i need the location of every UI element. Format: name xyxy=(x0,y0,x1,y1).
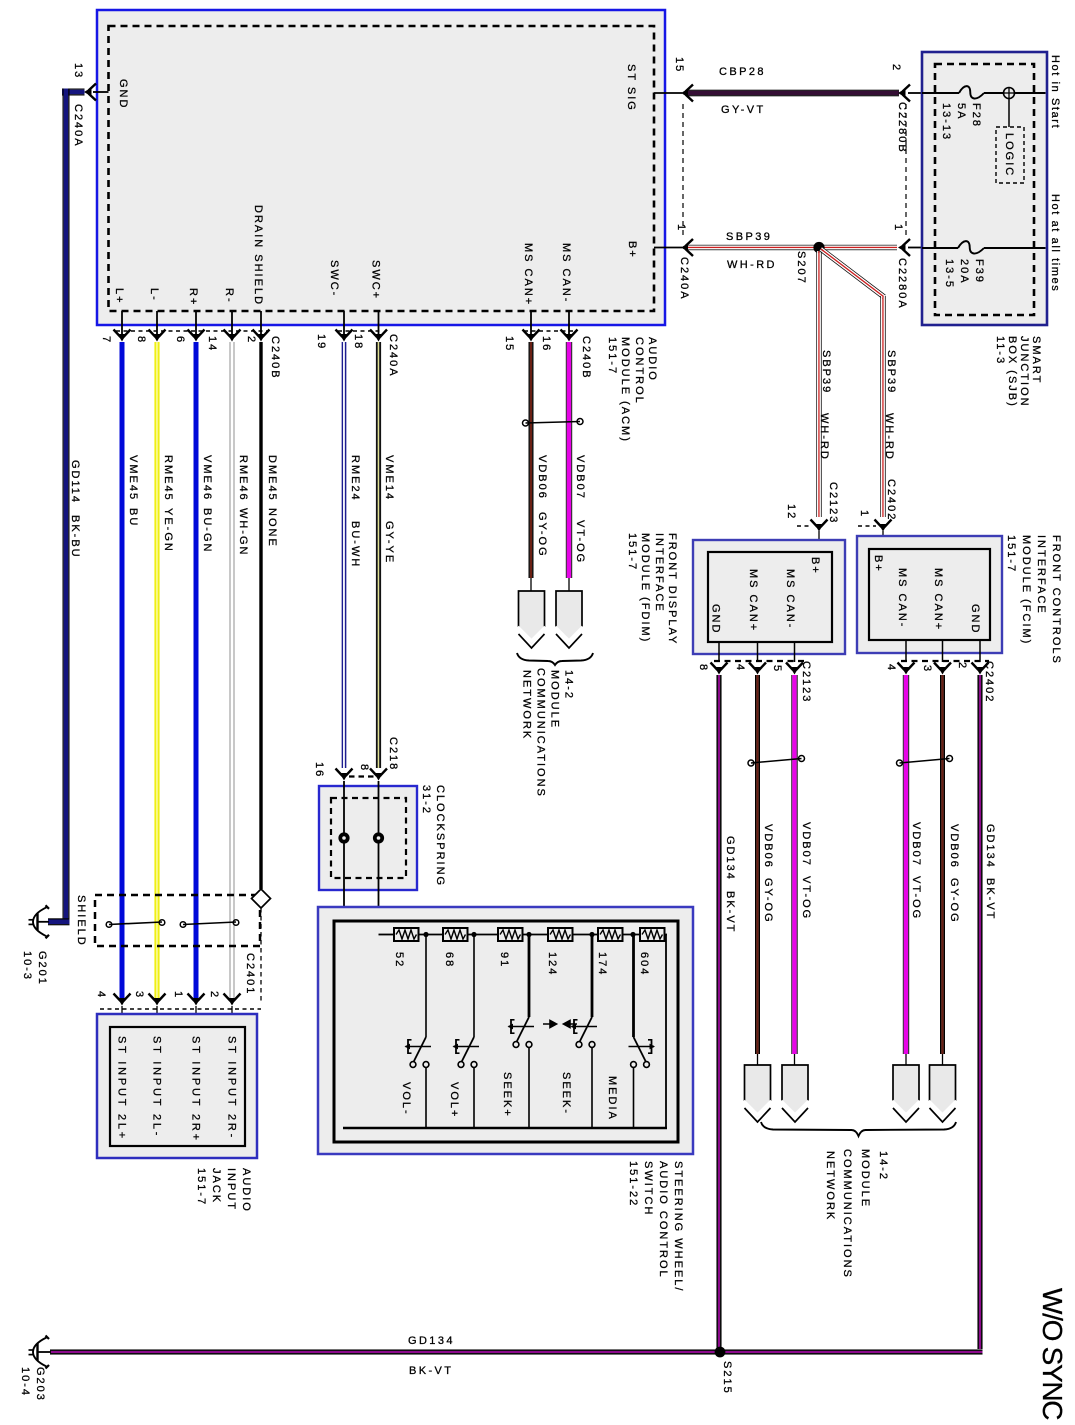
svg-text:4: 4 xyxy=(885,664,897,672)
svg-text:GY-YE: GY-YE xyxy=(383,521,395,564)
svg-text:GY-OG: GY-OG xyxy=(536,512,548,558)
svg-text:LOGIC: LOGIC xyxy=(1003,133,1015,177)
svg-text:VDB07: VDB07 xyxy=(910,822,922,867)
svg-text:ST SIG: ST SIG xyxy=(625,64,637,112)
svg-text:R+: R+ xyxy=(187,288,199,306)
svg-text:G203: G203 xyxy=(34,1367,46,1402)
svg-text:NONE: NONE xyxy=(266,508,278,548)
svg-text:11-3: 11-3 xyxy=(994,336,1006,365)
svg-text:2: 2 xyxy=(956,662,968,670)
svg-text:5: 5 xyxy=(771,665,783,673)
svg-text:13: 13 xyxy=(72,63,84,79)
svg-text:MS CAN+: MS CAN+ xyxy=(747,569,759,632)
svg-text:JUNCTION: JUNCTION xyxy=(1018,336,1030,408)
svg-text:DRAIN SHIELD: DRAIN SHIELD xyxy=(252,205,264,306)
svg-text:151-7: 151-7 xyxy=(1005,535,1017,573)
svg-text:GND: GND xyxy=(969,604,981,634)
svg-text:VME14: VME14 xyxy=(383,455,395,501)
svg-text:4: 4 xyxy=(95,991,107,999)
svg-text:INTERFACE: INTERFACE xyxy=(653,533,665,613)
svg-text:COMMUNICATIONS: COMMUNICATIONS xyxy=(841,1149,853,1279)
svg-text:C2123: C2123 xyxy=(800,661,812,703)
svg-text:F28: F28 xyxy=(970,103,982,128)
svg-text:C218: C218 xyxy=(387,737,399,771)
svg-text:8: 8 xyxy=(358,764,370,772)
svg-text:BU-GN: BU-GN xyxy=(201,508,213,553)
svg-text:C2280B: C2280B xyxy=(896,102,908,154)
svg-text:SEEK-: SEEK- xyxy=(560,1072,572,1115)
svg-text:C2280A: C2280A xyxy=(896,258,908,310)
svg-text:BK-VT: BK-VT xyxy=(724,891,736,933)
svg-text:YE-GN: YE-GN xyxy=(162,508,174,553)
svg-text:B+: B+ xyxy=(809,557,821,575)
svg-text:12: 12 xyxy=(785,504,797,520)
svg-text:7: 7 xyxy=(100,336,112,344)
svg-text:MS CAN+: MS CAN+ xyxy=(522,243,534,306)
svg-text:18: 18 xyxy=(352,334,364,350)
svg-text:AUDIO: AUDIO xyxy=(646,337,658,382)
svg-text:GND: GND xyxy=(117,79,129,109)
svg-text:31-2: 31-2 xyxy=(420,785,432,815)
svg-text:ST INPUT 2L+: ST INPUT 2L+ xyxy=(116,1036,128,1141)
svg-text:W/O SYNC: W/O SYNC xyxy=(1037,1288,1068,1420)
svg-text:MODULE: MODULE xyxy=(549,670,561,729)
svg-text:MS CAN-: MS CAN- xyxy=(896,568,908,628)
svg-text:CONTROL: CONTROL xyxy=(633,337,645,405)
svg-text:MODULE (FDIM): MODULE (FDIM) xyxy=(639,533,651,643)
svg-text:C2402: C2402 xyxy=(885,479,897,521)
svg-text:14: 14 xyxy=(206,336,218,352)
svg-text:20A: 20A xyxy=(958,259,970,285)
svg-text:GD134: GD134 xyxy=(408,1335,455,1347)
svg-text:RME45: RME45 xyxy=(162,455,174,502)
svg-text:151-22: 151-22 xyxy=(627,1161,639,1207)
svg-text:174: 174 xyxy=(596,952,608,976)
svg-text:SMART: SMART xyxy=(1030,336,1042,384)
svg-text:ST INPUT 2R+: ST INPUT 2R+ xyxy=(190,1036,202,1143)
svg-text:FRONT CONTROLS: FRONT CONTROLS xyxy=(1050,535,1062,665)
svg-text:NETWORK: NETWORK xyxy=(521,670,533,740)
svg-text:2: 2 xyxy=(245,336,257,344)
svg-text:FRONT DISPLAY: FRONT DISPLAY xyxy=(666,533,678,645)
svg-text:4: 4 xyxy=(734,664,746,672)
svg-text:Hot at all times: Hot at all times xyxy=(1049,194,1061,292)
svg-text:VOL-: VOL- xyxy=(400,1082,412,1116)
svg-text:SWC+: SWC+ xyxy=(370,260,382,300)
svg-text:GY-OG: GY-OG xyxy=(762,878,774,924)
svg-text:B+: B+ xyxy=(872,555,884,573)
svg-text:VDB07: VDB07 xyxy=(800,822,812,867)
svg-text:AUDIO CONTROL: AUDIO CONTROL xyxy=(657,1161,669,1279)
svg-text:BK-VT: BK-VT xyxy=(984,878,996,920)
svg-text:C240A: C240A xyxy=(72,104,84,148)
svg-text:COMMUNICATIONS: COMMUNICATIONS xyxy=(535,668,547,798)
svg-text:GD114: GD114 xyxy=(69,460,81,504)
svg-text:10-4: 10-4 xyxy=(19,1367,31,1397)
svg-text:151-7: 151-7 xyxy=(626,533,638,571)
svg-text:151-7: 151-7 xyxy=(606,337,618,375)
svg-text:WH-RD: WH-RD xyxy=(883,413,895,461)
svg-text:BOX (SJB): BOX (SJB) xyxy=(1006,336,1018,408)
svg-text:BK-BU: BK-BU xyxy=(69,515,81,559)
svg-text:VDB06: VDB06 xyxy=(762,824,774,869)
svg-text:ST INPUT 2R-: ST INPUT 2R- xyxy=(226,1036,238,1140)
svg-text:SBP39: SBP39 xyxy=(885,350,897,394)
svg-text:L-: L- xyxy=(148,288,160,302)
svg-text:VOL+: VOL+ xyxy=(448,1082,460,1118)
svg-text:S207: S207 xyxy=(795,251,807,285)
svg-text:151-7: 151-7 xyxy=(195,1168,207,1206)
svg-text:C240B: C240B xyxy=(580,336,592,380)
svg-text:INTERFACE: INTERFACE xyxy=(1035,535,1047,615)
svg-text:VT-OG: VT-OG xyxy=(574,520,586,564)
svg-text:GY-OG: GY-OG xyxy=(948,878,960,924)
svg-text:VME45: VME45 xyxy=(127,455,139,501)
svg-text:GD134: GD134 xyxy=(724,836,736,881)
svg-text:C240A: C240A xyxy=(678,257,690,301)
svg-text:SWC-: SWC- xyxy=(328,260,340,297)
svg-text:3: 3 xyxy=(133,991,145,999)
svg-text:SBP39: SBP39 xyxy=(820,350,832,394)
svg-text:VME46: VME46 xyxy=(201,455,213,501)
svg-text:ST INPUT 2L-: ST INPUT 2L- xyxy=(151,1036,163,1138)
svg-text:RME24: RME24 xyxy=(349,455,361,502)
svg-text:L+: L+ xyxy=(113,288,125,305)
svg-text:604: 604 xyxy=(638,952,650,976)
svg-text:DME45: DME45 xyxy=(266,455,278,502)
svg-text:MEDIA: MEDIA xyxy=(606,1076,618,1121)
svg-text:CLOCKSPRING: CLOCKSPRING xyxy=(434,785,446,887)
svg-text:13-13: 13-13 xyxy=(940,103,952,141)
svg-text:13-5: 13-5 xyxy=(943,259,955,289)
svg-text:5A: 5A xyxy=(955,103,967,120)
svg-text:F39: F39 xyxy=(973,259,985,284)
svg-text:JACK: JACK xyxy=(210,1168,222,1204)
svg-text:1: 1 xyxy=(675,224,687,232)
svg-text:R-: R- xyxy=(223,288,235,304)
svg-text:GND: GND xyxy=(710,604,722,634)
svg-text:MS CAN-: MS CAN- xyxy=(784,569,796,629)
svg-text:19: 19 xyxy=(315,334,327,350)
svg-text:8: 8 xyxy=(135,336,147,344)
svg-text:AUDIO: AUDIO xyxy=(240,1168,252,1213)
svg-text:15: 15 xyxy=(673,57,685,73)
svg-text:2: 2 xyxy=(208,991,220,999)
svg-text:Hot in Start: Hot in Start xyxy=(1049,55,1061,129)
svg-text:B+: B+ xyxy=(626,241,638,259)
svg-text:MODULE (ACM): MODULE (ACM) xyxy=(619,337,631,443)
svg-text:10-3: 10-3 xyxy=(21,951,33,981)
svg-text:VT-OG: VT-OG xyxy=(800,876,812,920)
svg-text:BU: BU xyxy=(127,508,139,527)
svg-text:MODULE: MODULE xyxy=(859,1149,871,1208)
svg-text:MS CAN-: MS CAN- xyxy=(560,243,572,303)
svg-text:STEERING WHEEL/: STEERING WHEEL/ xyxy=(672,1161,684,1292)
svg-text:G201: G201 xyxy=(36,951,48,986)
svg-text:C2402: C2402 xyxy=(983,661,995,703)
svg-text:VT-OG: VT-OG xyxy=(910,876,922,920)
svg-text:15: 15 xyxy=(503,336,515,352)
svg-text:MODULE (FCIM): MODULE (FCIM) xyxy=(1020,535,1032,645)
svg-text:MS CAN+: MS CAN+ xyxy=(932,568,944,631)
svg-text:VDB06: VDB06 xyxy=(948,824,960,869)
svg-text:GD134: GD134 xyxy=(984,824,996,869)
svg-text:RME46: RME46 xyxy=(237,455,249,502)
svg-text:SBP39: SBP39 xyxy=(726,231,772,243)
svg-text:3: 3 xyxy=(921,665,933,673)
svg-text:C2123: C2123 xyxy=(827,482,839,524)
svg-text:VDB07: VDB07 xyxy=(574,455,586,500)
svg-text:NETWORK: NETWORK xyxy=(824,1151,836,1221)
svg-text:68: 68 xyxy=(443,952,455,968)
svg-text:WH-RD: WH-RD xyxy=(727,259,777,271)
svg-text:SHIELD: SHIELD xyxy=(75,895,87,947)
svg-text:INPUT: INPUT xyxy=(225,1168,237,1211)
svg-text:8: 8 xyxy=(697,664,709,672)
svg-text:C240B: C240B xyxy=(269,336,281,380)
svg-text:2: 2 xyxy=(890,64,902,72)
svg-text:91: 91 xyxy=(498,952,510,968)
svg-text:14-2: 14-2 xyxy=(877,1151,889,1181)
svg-text:124: 124 xyxy=(546,952,558,976)
svg-text:6: 6 xyxy=(174,336,186,344)
svg-text:1: 1 xyxy=(172,991,184,999)
svg-text:16: 16 xyxy=(313,762,325,778)
svg-text:S215: S215 xyxy=(721,1361,733,1395)
svg-text:WH-RD: WH-RD xyxy=(818,413,830,461)
svg-text:VDB06: VDB06 xyxy=(536,455,548,500)
svg-text:C2401: C2401 xyxy=(244,953,256,995)
svg-text:14-2: 14-2 xyxy=(563,670,575,700)
svg-text:WH-GN: WH-GN xyxy=(237,508,249,557)
svg-text:CBP28: CBP28 xyxy=(719,66,766,78)
svg-text:SWITCH: SWITCH xyxy=(642,1161,654,1216)
svg-text:BU-WH: BU-WH xyxy=(349,521,361,568)
svg-text:C240A: C240A xyxy=(387,334,399,378)
svg-text:1: 1 xyxy=(858,510,870,518)
svg-text:52: 52 xyxy=(393,952,405,968)
svg-text:16: 16 xyxy=(540,336,552,352)
svg-text:GY-VT: GY-VT xyxy=(721,104,766,116)
svg-text:BK-VT: BK-VT xyxy=(409,1365,453,1377)
svg-text:SEEK+: SEEK+ xyxy=(501,1072,513,1118)
svg-text:1: 1 xyxy=(892,224,904,232)
